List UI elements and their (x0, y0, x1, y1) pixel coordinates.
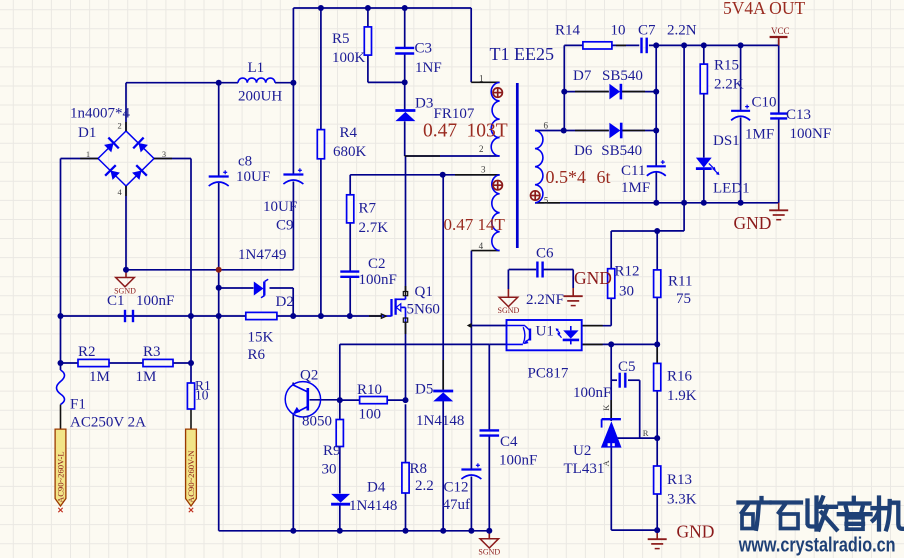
svg-text:5V4A OUT: 5V4A OUT (723, 0, 805, 18)
svg-text:6: 6 (544, 121, 549, 131)
svg-text:3.3K: 3.3K (667, 492, 697, 508)
svg-text:1N4749: 1N4749 (238, 247, 286, 263)
svg-text:2.2N: 2.2N (667, 23, 697, 39)
svg-text:100nF: 100nF (573, 385, 611, 401)
svg-text:R4: R4 (340, 125, 358, 141)
svg-text:0.5*4: 0.5*4 (546, 167, 587, 187)
svg-text:D1: D1 (78, 125, 96, 141)
svg-text:5: 5 (544, 196, 549, 206)
svg-text:SB540: SB540 (601, 143, 642, 159)
svg-text:U1: U1 (536, 324, 554, 340)
svg-text:C13: C13 (786, 107, 811, 123)
svg-text:30: 30 (322, 462, 337, 478)
svg-text:4: 4 (479, 241, 484, 251)
svg-text:2.7K: 2.7K (359, 220, 389, 236)
svg-text:100nF: 100nF (359, 272, 397, 288)
svg-text:R13: R13 (667, 472, 692, 488)
svg-text:R7: R7 (359, 201, 377, 217)
svg-text:3: 3 (162, 150, 166, 159)
svg-text:2.2K: 2.2K (714, 77, 744, 93)
svg-text:C9: C9 (276, 218, 294, 234)
svg-text:C3: C3 (415, 41, 433, 57)
svg-text:C11: C11 (621, 163, 645, 179)
svg-text:D3: D3 (415, 96, 433, 112)
svg-text:14T: 14T (478, 215, 506, 234)
svg-text:VCC: VCC (771, 26, 790, 36)
svg-text:10: 10 (611, 23, 626, 39)
svg-text:R9: R9 (323, 443, 341, 459)
svg-text:103T: 103T (467, 121, 508, 142)
svg-text:1: 1 (86, 150, 90, 159)
svg-text:C4: C4 (500, 434, 518, 450)
svg-text:GND: GND (734, 213, 772, 233)
svg-text:47uf: 47uf (443, 497, 471, 513)
svg-text:C2: C2 (368, 256, 386, 272)
svg-text:10UF: 10UF (263, 199, 297, 215)
svg-text:c8: c8 (238, 154, 252, 170)
svg-text:100NF: 100NF (790, 126, 832, 142)
svg-text:C6: C6 (536, 246, 554, 262)
svg-text:1MF: 1MF (745, 127, 774, 143)
svg-text:AC90~260V-N: AC90~260V-N (186, 450, 196, 503)
svg-text:L1: L1 (248, 60, 265, 76)
svg-text:GND: GND (574, 268, 612, 288)
svg-text:100nF: 100nF (136, 293, 174, 309)
svg-text:100nF: 100nF (499, 453, 537, 469)
svg-text:D6: D6 (574, 143, 593, 159)
svg-text:R6: R6 (248, 347, 266, 363)
svg-text:2.2: 2.2 (415, 478, 434, 494)
svg-text:PC817: PC817 (528, 366, 569, 382)
svg-text:5N60: 5N60 (407, 302, 440, 318)
svg-text:R2: R2 (78, 344, 96, 360)
svg-text:C7: C7 (638, 23, 656, 39)
svg-text:K: K (601, 404, 611, 411)
svg-text:30: 30 (619, 284, 634, 300)
svg-text:D2: D2 (276, 294, 294, 310)
svg-text:10UF: 10UF (236, 169, 270, 185)
svg-text:1N4148: 1N4148 (416, 413, 464, 429)
svg-text:1NF: 1NF (415, 60, 442, 76)
svg-text:0.47: 0.47 (444, 215, 474, 234)
svg-text:Q2: Q2 (300, 368, 318, 384)
svg-text:www.crystalradio.cn: www.crystalradio.cn (738, 535, 896, 557)
svg-text:D5: D5 (415, 382, 433, 398)
svg-text:R5: R5 (332, 31, 350, 47)
svg-text:0.47: 0.47 (423, 121, 457, 142)
svg-text:D4: D4 (367, 480, 386, 496)
svg-text:2.2NF: 2.2NF (526, 292, 564, 308)
svg-text:AC90~260V-L: AC90~260V-L (56, 451, 66, 503)
svg-text:DS1: DS1 (713, 133, 740, 149)
svg-text:R3: R3 (143, 344, 161, 360)
svg-text:2: 2 (118, 121, 122, 131)
svg-text:200UH: 200UH (238, 89, 282, 105)
svg-text:U2: U2 (573, 443, 591, 459)
svg-text:8050: 8050 (302, 414, 332, 430)
svg-text:R10: R10 (357, 382, 382, 398)
svg-text:AC250V 2A: AC250V 2A (70, 415, 146, 431)
svg-text:GND: GND (677, 522, 715, 542)
svg-text:Q1: Q1 (415, 284, 433, 300)
svg-text:1MF: 1MF (621, 180, 650, 196)
svg-text:C12: C12 (444, 480, 469, 496)
svg-text:3: 3 (481, 165, 486, 175)
svg-text:R14: R14 (555, 23, 581, 39)
svg-text:1: 1 (479, 74, 484, 84)
svg-text:LED1: LED1 (713, 181, 750, 197)
svg-text:SGND: SGND (478, 548, 500, 557)
svg-text:TL431: TL431 (564, 461, 605, 477)
svg-text:C1: C1 (107, 293, 125, 309)
svg-text:100K: 100K (332, 50, 366, 66)
svg-text:2: 2 (479, 144, 484, 154)
svg-text:R8: R8 (410, 461, 428, 477)
svg-text:T1 EE25: T1 EE25 (490, 44, 555, 64)
svg-text:6t: 6t (597, 167, 611, 187)
svg-text:R12: R12 (615, 264, 640, 280)
svg-text:R: R (643, 428, 649, 438)
svg-text:C10: C10 (752, 95, 777, 111)
svg-text:SB540: SB540 (602, 68, 643, 84)
svg-text:1.9K: 1.9K (667, 388, 697, 404)
svg-text:SGND: SGND (498, 306, 520, 315)
svg-text:680K: 680K (333, 144, 367, 160)
svg-text:A: A (601, 460, 611, 467)
svg-text:C5: C5 (618, 359, 636, 375)
svg-text:100: 100 (359, 407, 382, 423)
svg-text:1M: 1M (89, 369, 110, 385)
svg-text:1N4148: 1N4148 (349, 498, 397, 514)
svg-text:R11: R11 (668, 274, 692, 290)
svg-text:75: 75 (676, 291, 691, 307)
svg-text:F1: F1 (70, 397, 86, 413)
svg-text:R16: R16 (667, 369, 693, 385)
svg-text:1n4007*4: 1n4007*4 (70, 106, 131, 122)
svg-text:10: 10 (195, 388, 209, 403)
svg-text:R15: R15 (714, 58, 739, 74)
svg-text:15K: 15K (248, 330, 274, 346)
svg-text:D7: D7 (573, 68, 592, 84)
svg-text:1M: 1M (136, 369, 157, 385)
